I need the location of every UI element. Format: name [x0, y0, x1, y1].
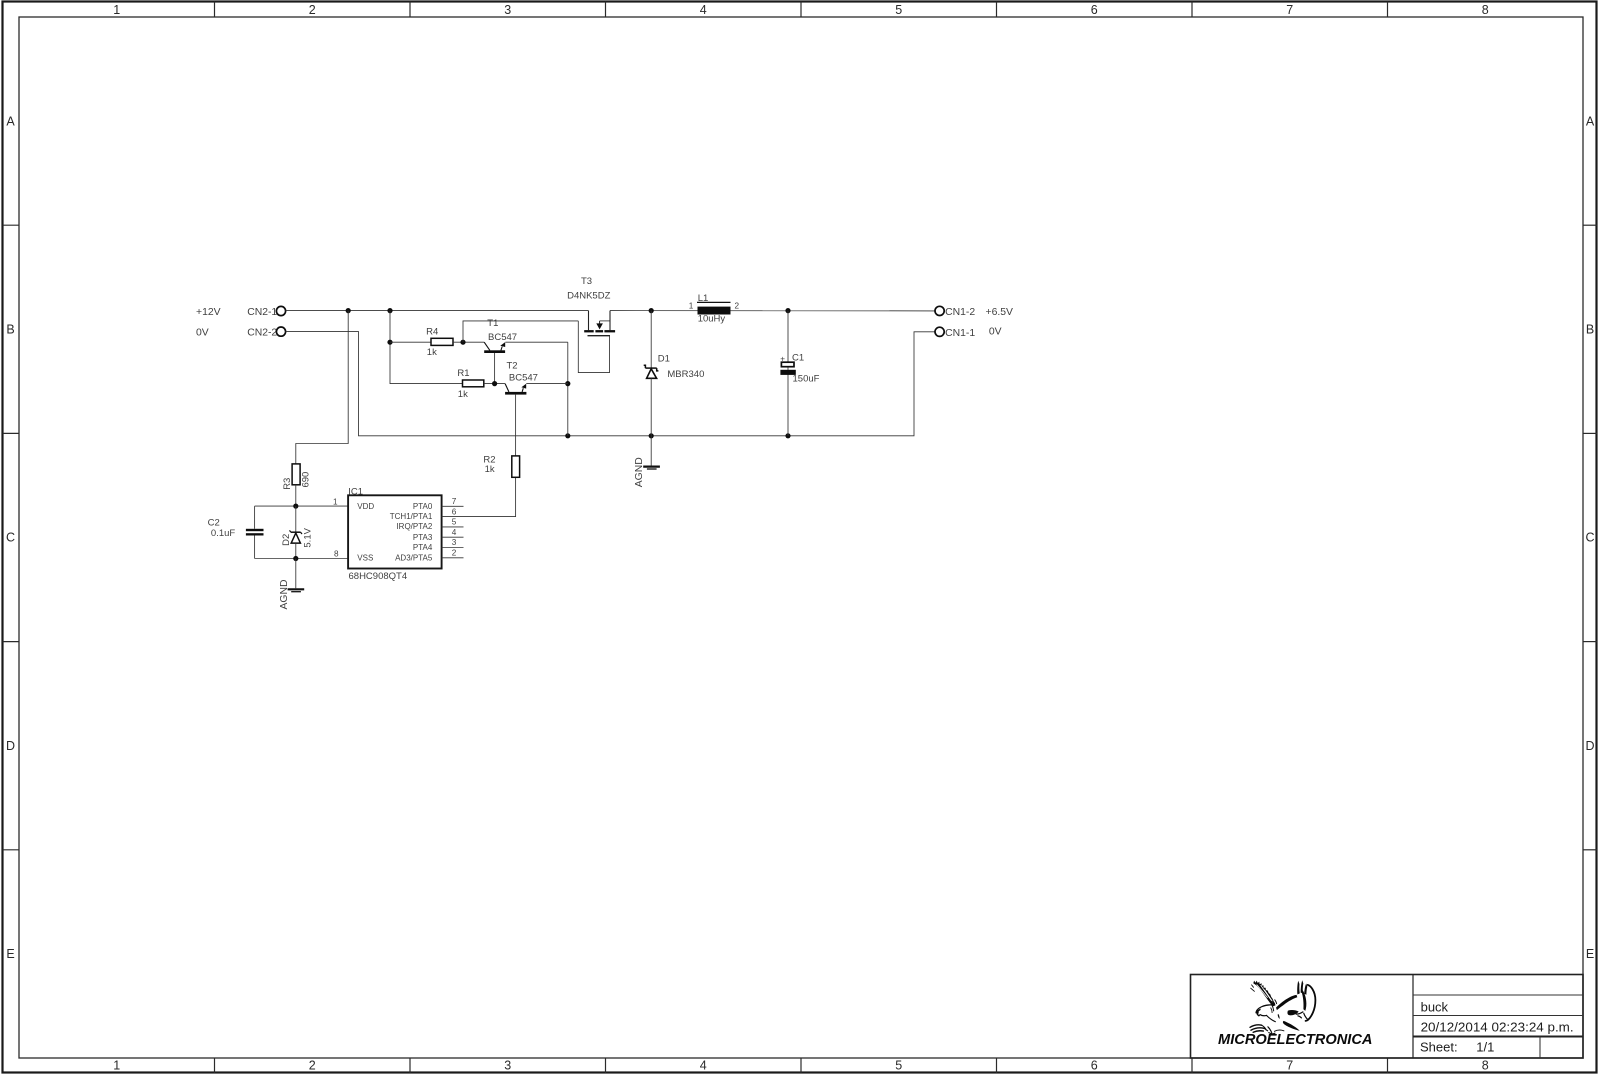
wire R4 right to T1 node	[453, 341, 484, 343]
left wing (jagged feathers)	[1253, 981, 1275, 1007]
connector pad CN1-2	[935, 306, 944, 315]
wire gate feed	[463, 321, 578, 342]
svg-text:1k: 1k	[427, 347, 437, 358]
svg-text:4: 4	[700, 3, 707, 17]
svg-text:D2: D2	[281, 534, 292, 546]
svg-text:CN1-2: CN1-2	[945, 307, 975, 318]
svg-text:0V: 0V	[989, 326, 1002, 337]
transistor T2	[505, 361, 538, 456]
svg-text:IRQ/PTA2: IRQ/PTA2	[396, 522, 432, 531]
svg-text:MBR340: MBR340	[667, 369, 704, 380]
svg-text:PTA0: PTA0	[413, 502, 433, 511]
pin stub 5 IRQ/PTA2	[442, 526, 464, 528]
svg-text:7: 7	[1286, 3, 1293, 17]
diode D1 MBR340	[644, 311, 705, 436]
svg-text:C: C	[6, 531, 15, 545]
svg-text:CN2-1: CN2-1	[247, 307, 277, 318]
under-wing black wedge	[1287, 1010, 1298, 1015]
svg-text:690: 690	[301, 472, 312, 488]
svg-text:8: 8	[1482, 1059, 1489, 1073]
wire R3 to VDD node	[295, 485, 297, 506]
svg-text:B: B	[6, 323, 14, 337]
svg-text:C2: C2	[208, 517, 220, 528]
svg-text:1: 1	[113, 1059, 120, 1073]
svg-text:68HC908QT4: 68HC908QT4	[349, 571, 408, 582]
capacitor C2	[208, 506, 264, 558]
svg-text:3: 3	[452, 538, 457, 547]
svg-text:A: A	[6, 114, 15, 128]
resistor R2	[483, 455, 519, 478]
wire top rail right (switch node to CN1-2)	[610, 310, 935, 312]
svg-text:2: 2	[309, 1059, 316, 1073]
frame column labels bottom	[113, 1059, 1489, 1073]
pin stub 6 TCH1/PTA1 wire to R2	[442, 477, 516, 516]
tail black wedge	[1283, 1021, 1300, 1031]
svg-text:BC547: BC547	[488, 332, 517, 343]
title block box	[1191, 975, 1584, 1059]
wire +12V to R3 feed	[296, 311, 348, 464]
svg-text:+12V: +12V	[196, 307, 221, 318]
frame column ticks top	[215, 2, 1388, 18]
wire T1 emitter to x568	[505, 341, 567, 343]
svg-text:+6.5V: +6.5V	[986, 307, 1014, 318]
junction top rail x348	[346, 308, 351, 313]
svg-text:1k: 1k	[458, 389, 468, 400]
svg-text:IC1: IC1	[348, 486, 363, 497]
junction T2 emitter node	[565, 381, 570, 386]
svg-text:0.1uF: 0.1uF	[211, 528, 235, 539]
svg-text:1: 1	[333, 497, 338, 506]
svg-text:B: B	[1586, 323, 1594, 337]
svg-text:T3: T3	[581, 276, 592, 287]
svg-text:1k: 1k	[485, 464, 495, 475]
svg-text:CN1-1: CN1-1	[945, 328, 975, 339]
svg-text:D: D	[1585, 739, 1594, 753]
wire D1 to AGND	[650, 436, 652, 466]
svg-text:150uF: 150uF	[793, 374, 820, 385]
wire VSS row	[255, 558, 348, 560]
connector pad CN1-1	[935, 327, 944, 336]
svg-text:VSS: VSS	[357, 553, 373, 562]
svg-text:10uHy: 10uHy	[698, 313, 726, 324]
svg-text:1/1: 1/1	[1476, 1040, 1494, 1055]
svg-text:PTA3: PTA3	[413, 533, 433, 542]
svg-text:7: 7	[1286, 1059, 1293, 1073]
wire CN2-2 to ground rail	[286, 332, 935, 436]
svg-text:R3: R3	[282, 478, 293, 490]
wire VDD row	[255, 505, 348, 507]
svg-text:8: 8	[334, 550, 339, 559]
svg-text:E: E	[1586, 947, 1594, 961]
neck feather strokes	[1273, 1000, 1277, 1005]
wire x568 vertical	[567, 342, 569, 436]
junction R4 left	[387, 340, 392, 345]
wire R4 left	[390, 341, 431, 343]
inductor L1	[689, 293, 740, 325]
svg-text:D: D	[6, 739, 15, 753]
junction switch node x651	[649, 308, 654, 313]
svg-text:Sheet:: Sheet:	[1420, 1040, 1458, 1055]
wire +12V to R4/R1 branch	[390, 311, 463, 384]
frame row ticks right	[1583, 225, 1597, 850]
wire R1 right to T2 base node	[484, 383, 505, 385]
svg-text:T1: T1	[487, 318, 498, 329]
svg-text:6: 6	[452, 507, 457, 516]
frame column ticks bottom	[215, 1058, 1388, 1073]
head and beak	[1256, 1005, 1272, 1016]
svg-text:5: 5	[895, 1059, 902, 1073]
svg-text:5.1V: 5.1V	[303, 527, 314, 547]
wire +12V top rail left	[286, 310, 589, 312]
svg-text:4: 4	[452, 528, 457, 537]
left foot scratches	[1250, 1025, 1264, 1032]
svg-text:AGND: AGND	[279, 579, 290, 609]
frame row ticks left	[3, 225, 20, 850]
svg-text:D4NK5DZ: D4NK5DZ	[567, 290, 610, 301]
svg-text:2: 2	[452, 549, 457, 558]
junction VDD node	[293, 504, 298, 509]
svg-text:T2: T2	[507, 361, 518, 372]
pin stub 4 PTA3	[442, 536, 464, 538]
centre talon scribble	[1268, 1027, 1275, 1034]
zener diode D2	[281, 506, 314, 558]
svg-text:E: E	[6, 947, 14, 961]
mosfet T3	[567, 276, 615, 373]
resistor R4	[426, 326, 453, 358]
svg-text:TCH1/PTA1: TCH1/PTA1	[390, 512, 433, 521]
right wing fingers	[1297, 981, 1300, 995]
junction VSS node	[293, 556, 298, 561]
svg-text:7: 7	[452, 497, 457, 506]
junction R1/T1 base	[492, 381, 497, 386]
svg-text:5: 5	[895, 3, 902, 17]
wire VSS to AGND	[295, 559, 297, 589]
svg-text:CN2-2: CN2-2	[247, 327, 277, 338]
frame column labels top	[113, 3, 1489, 17]
right wing outer scalloped edge	[1306, 985, 1316, 1021]
svg-text:BC547: BC547	[509, 373, 538, 384]
crown line	[1263, 1005, 1273, 1011]
logo eagle	[1250, 980, 1315, 1034]
svg-text:R4: R4	[426, 326, 438, 337]
IC U1 68HC908QT4	[348, 486, 442, 582]
frame row labels left	[6, 114, 15, 961]
belly slash	[1278, 1014, 1280, 1019]
svg-text:8: 8	[1482, 3, 1489, 17]
svg-text:4: 4	[700, 1059, 707, 1073]
svg-text:AGND: AGND	[634, 457, 645, 487]
svg-text:AD3/PTA5: AD3/PTA5	[395, 553, 433, 562]
resistor R3	[282, 464, 312, 490]
junction T1 node	[460, 340, 465, 345]
svg-text:C: C	[1585, 531, 1594, 545]
svg-text:VDD: VDD	[357, 502, 374, 511]
upper-wing long black band	[1276, 995, 1297, 1010]
svg-text:PTA4: PTA4	[413, 543, 433, 552]
ground AGND (power rail)	[634, 457, 660, 487]
beak dark	[1256, 1009, 1261, 1016]
svg-text:1: 1	[689, 302, 694, 311]
junction ground rail x568	[565, 433, 570, 438]
svg-text:buck: buck	[1421, 999, 1449, 1014]
svg-text:20/12/2014 02:23:24 p.m.: 20/12/2014 02:23:24 p.m.	[1421, 1019, 1574, 1034]
wire T2 emitter to x568	[526, 383, 568, 385]
svg-text:A: A	[1586, 114, 1595, 128]
svg-text:D1: D1	[658, 354, 670, 365]
junction ground rail x651	[649, 433, 654, 438]
junction ground rail x788	[785, 433, 790, 438]
frame row labels right	[1585, 114, 1594, 961]
svg-text:3: 3	[504, 1059, 511, 1073]
capacitor C1	[780, 311, 819, 436]
pin stub 7 PTA0	[442, 505, 464, 507]
ground AGND (logic)	[279, 579, 304, 609]
wing lower inner edge	[1296, 1012, 1308, 1020]
belly outline	[1267, 1015, 1276, 1021]
svg-text:2: 2	[735, 302, 740, 311]
junction top rail x390	[387, 308, 392, 313]
svg-text:2: 2	[309, 3, 316, 17]
resistor R1	[457, 368, 483, 400]
svg-text:0V: 0V	[196, 327, 209, 338]
svg-text:6: 6	[1091, 1059, 1098, 1073]
pin stub 3 PTA4	[442, 547, 464, 549]
junction output node x788	[785, 308, 790, 313]
svg-text:6: 6	[1091, 3, 1098, 17]
svg-text:R1: R1	[457, 368, 469, 379]
svg-text:1: 1	[113, 3, 120, 17]
svg-text:3: 3	[504, 3, 511, 17]
svg-text:5: 5	[452, 518, 457, 527]
svg-text:MICROELECTRONICA: MICROELECTRONICA	[1218, 1032, 1373, 1048]
pin stub 2 AD3/PTA5	[442, 557, 464, 559]
transistor T1	[484, 318, 517, 384]
right wing inner crescent	[1301, 989, 1306, 1010]
